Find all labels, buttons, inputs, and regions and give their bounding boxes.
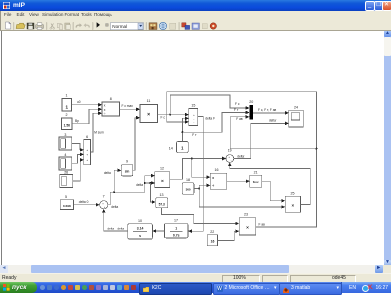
svg-text:7: 7 — [103, 195, 105, 199]
svg-text:15: 15 — [191, 104, 195, 108]
svg-text:+: + — [86, 158, 88, 162]
svg-text:F ав: F ав — [236, 117, 243, 121]
svg-text:1.56: 1.56 — [64, 123, 71, 127]
svg-text:x: x — [212, 176, 214, 180]
svg-text:F т: F т — [192, 133, 197, 137]
svg-text:12: 12 — [160, 167, 164, 171]
svg-text:floor: floor — [253, 180, 259, 184]
svg-text:360: 360 — [186, 188, 191, 192]
svg-text:F с max: F с max — [122, 104, 134, 108]
svg-text:57.3: 57.3 — [159, 202, 165, 206]
svg-text:×: × — [246, 225, 249, 231]
svg-text:16: 16 — [215, 168, 219, 172]
svg-text:×: × — [161, 179, 164, 185]
svg-text:3.14: 3.14 — [137, 227, 144, 231]
svg-text:4: 4 — [64, 153, 66, 157]
svg-text:F с: F с — [161, 116, 166, 120]
svg-text:delta´: delta´ — [269, 118, 277, 122]
svg-text:s: s — [139, 234, 141, 238]
svg-text:14: 14 — [169, 146, 173, 150]
svg-text:16: 16 — [211, 239, 215, 243]
svg-text:F с, F т, F ав: F с, F т, F ав — [258, 108, 277, 112]
svg-text:18: 18 — [186, 178, 190, 182]
svg-text:3: 3 — [64, 133, 66, 137]
svg-text:u0: u0 — [77, 100, 81, 104]
svg-text:Bp: Bp — [75, 119, 79, 123]
svg-text:×: × — [291, 203, 294, 208]
svg-text:6: 6 — [86, 135, 88, 139]
svg-text:25: 25 — [291, 191, 295, 195]
svg-text:2: 2 — [66, 113, 68, 117]
svg-text:1: 1 — [175, 226, 177, 230]
svg-text:22: 22 — [210, 230, 214, 234]
svg-text:0.698: 0.698 — [63, 204, 71, 208]
svg-text:1: 1 — [66, 94, 68, 98]
svg-text:17: 17 — [174, 219, 178, 223]
svg-text:20: 20 — [249, 100, 253, 104]
svg-text:+: + — [86, 148, 88, 152]
svg-text:11: 11 — [147, 99, 151, 103]
svg-text:×: × — [147, 112, 150, 118]
svg-text:delta: delta — [108, 227, 115, 231]
svg-text:9: 9 — [126, 160, 128, 164]
svg-text:delta: delta — [104, 171, 111, 175]
svg-text:delta: delta — [111, 205, 118, 209]
svg-text:M sum: M sum — [94, 131, 104, 135]
svg-text:-: - — [193, 120, 194, 124]
svg-text:23: 23 — [244, 213, 248, 217]
svg-text:+: + — [86, 153, 88, 157]
svg-text:24: 24 — [294, 105, 298, 109]
svg-text:10: 10 — [138, 219, 142, 223]
svg-text:F т: F т — [234, 108, 239, 112]
svg-text:delta´: delta´ — [237, 154, 245, 158]
svg-text:÷: ÷ — [212, 184, 214, 188]
svg-text:0.7s: 0.7s — [173, 234, 180, 238]
svg-text:13: 13 — [160, 193, 164, 197]
svg-text:delta F: delta F — [205, 117, 215, 121]
svg-text:delta: delta — [136, 183, 143, 187]
svg-text:5: 5 — [65, 195, 67, 199]
svg-text:26: 26 — [64, 170, 68, 174]
svg-text:19: 19 — [228, 148, 232, 152]
svg-text:delta 0: delta 0 — [79, 200, 89, 204]
svg-text:F с: F с — [235, 102, 240, 106]
svg-text:÷: ÷ — [104, 112, 106, 116]
svg-text:21: 21 — [254, 171, 258, 175]
svg-text:8: 8 — [110, 97, 112, 101]
svg-text:sin: sin — [125, 169, 130, 173]
svg-text:F ав: F ав — [259, 222, 266, 226]
svg-text:delta: delta — [118, 227, 125, 231]
